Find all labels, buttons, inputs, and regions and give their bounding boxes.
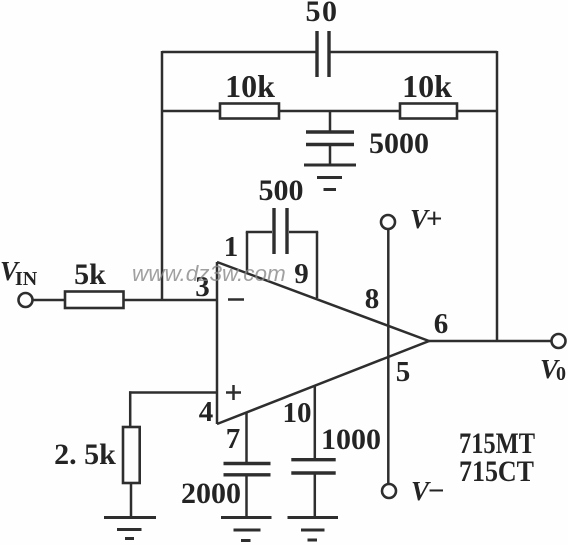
resistor 5k bbox=[65, 292, 124, 309]
value label 10k (left) bbox=[225, 68, 275, 104]
value label 2000 bbox=[181, 477, 241, 510]
wire: output pin 6 to terminal bbox=[429, 340, 552, 343]
pin label 1 bbox=[224, 231, 239, 263]
terminal V- bbox=[382, 484, 396, 498]
svg-text:50: 50 bbox=[306, 0, 339, 28]
net label VO bbox=[540, 354, 566, 385]
value label 5k bbox=[74, 258, 106, 291]
svg-text:+: + bbox=[426, 203, 443, 235]
wire: pin 1 vertical bbox=[246, 232, 249, 272]
pin label 4 bbox=[199, 396, 214, 428]
wire: V+ through pins 8 and 5 to V- bbox=[387, 229, 390, 484]
wire: top feedback horizontal, left segment bbox=[162, 51, 316, 54]
wire: pin 10 vertical bbox=[314, 386, 317, 460]
wire: pin 9 vertical bbox=[316, 232, 319, 298]
ground (below 1000) bbox=[288, 518, 339, 541]
svg-text:0: 0 bbox=[556, 363, 566, 385]
value label 10k (right) bbox=[402, 68, 452, 104]
wire: pin 7 vertical bbox=[245, 412, 248, 464]
capacitor 5000 bbox=[306, 132, 354, 165]
svg-text:500: 500 bbox=[259, 174, 304, 207]
svg-text:10k: 10k bbox=[225, 68, 275, 104]
wire: left feedback vertical bbox=[161, 51, 164, 300]
pin label 3 bbox=[195, 271, 210, 303]
svg-text:1000: 1000 bbox=[321, 423, 381, 456]
wire: 10k row, middle segment bbox=[279, 110, 400, 113]
wire: 10k row, left stub bbox=[162, 110, 220, 113]
capacitor 500 bbox=[274, 208, 287, 254]
svg-text:9: 9 bbox=[294, 258, 309, 290]
svg-text:5k: 5k bbox=[74, 258, 106, 291]
wire: pin 4 drop to 2.5k bbox=[129, 391, 132, 427]
terminal VO bbox=[552, 334, 566, 348]
svg-text:6: 6 bbox=[434, 308, 449, 340]
svg-text:IN: IN bbox=[15, 268, 38, 290]
svg-text:5000: 5000 bbox=[369, 127, 429, 160]
net label V+ bbox=[410, 203, 443, 235]
value label 500 bbox=[259, 174, 304, 207]
net label V- bbox=[411, 475, 445, 507]
pin label 9 bbox=[294, 258, 309, 290]
value label 1000 bbox=[321, 423, 381, 456]
pin label 6 bbox=[434, 308, 449, 340]
svg-text:2. 5k: 2. 5k bbox=[54, 438, 116, 471]
svg-text:www.dz3w.com: www.dz3w.com bbox=[132, 261, 286, 286]
capacitor 50 bbox=[317, 31, 329, 77]
terminal VIN bbox=[19, 293, 33, 307]
svg-text:715CT: 715CT bbox=[459, 455, 534, 488]
svg-text:8: 8 bbox=[365, 283, 380, 315]
wire: 1000 to ground bbox=[314, 473, 317, 518]
wire: 500 bracket right horizontal bbox=[289, 231, 318, 234]
wire: 10k row, right stub bbox=[457, 110, 497, 113]
svg-text:10k: 10k bbox=[402, 68, 452, 104]
resistor 2.5k bbox=[123, 427, 140, 483]
svg-text:4: 4 bbox=[199, 396, 214, 428]
net label VIN bbox=[0, 256, 38, 290]
pin label 8 bbox=[365, 283, 380, 315]
wire: non-inverting input (pin 4) horizontal bbox=[129, 391, 217, 394]
wire: top feedback horizontal, right segment bbox=[331, 51, 498, 54]
svg-text:7: 7 bbox=[226, 423, 241, 455]
svg-text:5: 5 bbox=[396, 356, 411, 388]
capacitor 1000 bbox=[291, 460, 335, 473]
node: junction drop between 10k resistors bbox=[329, 111, 332, 132]
svg-text:10: 10 bbox=[283, 397, 312, 429]
ground (below 2000) bbox=[221, 518, 272, 541]
ground (below 2.5k) bbox=[104, 518, 156, 539]
watermark www.dz3w.com bbox=[132, 261, 286, 286]
capacitor 2000 bbox=[224, 464, 271, 475]
pin label 10 bbox=[283, 397, 312, 429]
part number 715MT / 715CT bbox=[459, 427, 535, 488]
terminal V+ bbox=[381, 215, 395, 229]
op-amp inverting input symbol - bbox=[228, 298, 244, 301]
pin label 7 bbox=[226, 423, 241, 455]
pin label 5 bbox=[396, 356, 411, 388]
svg-text:−: − bbox=[428, 475, 445, 507]
svg-text:1: 1 bbox=[224, 231, 239, 263]
wire: input terminal to 5k bbox=[33, 299, 66, 302]
op-amp non-inverting input symbol + bbox=[226, 385, 241, 400]
value label 2.5k bbox=[54, 438, 116, 471]
wire: 2.5k to ground bbox=[130, 483, 133, 517]
value label 5000 bbox=[369, 127, 429, 160]
wire: 500 bracket left horizontal bbox=[246, 231, 272, 234]
ground (below 5000) bbox=[304, 165, 356, 190]
wire: 2000 to ground bbox=[245, 475, 248, 518]
wire: 5k to inverting input (pin 3) bbox=[124, 299, 217, 302]
wire: right feedback vertical bbox=[496, 51, 499, 341]
value label 50 bbox=[306, 0, 339, 28]
resistor 10k (left) bbox=[220, 104, 279, 119]
resistor 10k (right) bbox=[400, 104, 457, 119]
svg-text:2000: 2000 bbox=[181, 477, 241, 510]
op-amp 715 triangle bbox=[217, 262, 429, 424]
